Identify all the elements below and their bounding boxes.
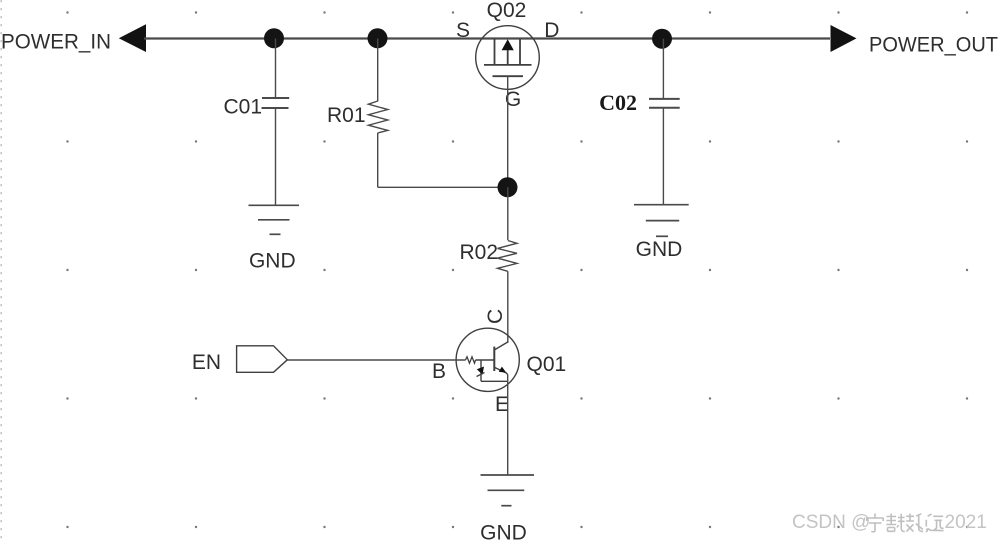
- wire R01 upper lead: [377, 39, 379, 102]
- svg-text:R01: R01: [327, 104, 366, 127]
- svg-text:E: E: [495, 393, 509, 416]
- svg-text:C01: C01: [223, 96, 262, 119]
- wire R02 lower lead to Q01 collector: [507, 271, 509, 342]
- capacitor C02: [649, 99, 680, 108]
- svg-text:B: B: [432, 360, 446, 383]
- ground GND under C02: [634, 205, 689, 261]
- port POWER_OUT: [831, 25, 999, 57]
- svg-text:C02: C02: [599, 90, 637, 115]
- junction node at C01 tap: [264, 28, 284, 48]
- junction node at C02 tap: [652, 29, 672, 49]
- wire Q02 gate lead: [507, 76, 509, 187]
- port POWER_IN: [1, 24, 146, 53]
- wire C02 lower lead: [662, 108, 664, 205]
- wire main power rail: [144, 37, 830, 39]
- svg-text:Q01: Q01: [527, 353, 567, 376]
- svg-text:S: S: [456, 19, 470, 42]
- wire C01 upper lead: [275, 39, 277, 99]
- junction node gate/R02: [498, 177, 518, 197]
- wire R02 upper lead: [507, 187, 509, 240]
- svg-text:EN: EN: [192, 351, 221, 374]
- svg-text:GND: GND: [636, 238, 683, 261]
- ground GND under Q01: [480, 475, 534, 542]
- resistor R01: [327, 101, 388, 133]
- wire R01 lower lead: [377, 133, 379, 187]
- junction node at R01 tap: [368, 28, 388, 48]
- svg-text:2021: 2021: [945, 512, 987, 533]
- resistor R02: [459, 241, 517, 272]
- wire C02 upper lead: [662, 39, 664, 99]
- wire R01 to gate node: [378, 186, 508, 188]
- port EN: [192, 346, 287, 374]
- svg-text:GND: GND: [249, 250, 296, 273]
- transistor Q01: [456, 328, 566, 391]
- transistor Q02: [476, 0, 540, 89]
- svg-text:R02: R02: [459, 241, 498, 264]
- wire Q01 emitter lead: [507, 375, 509, 476]
- capacitor C01: [262, 98, 290, 108]
- svg-text:POWER_OUT: POWER_OUT: [869, 34, 998, 57]
- svg-text:Q02: Q02: [487, 0, 527, 22]
- svg-text:C: C: [484, 309, 507, 324]
- svg-text:CSDN @: CSDN @: [792, 512, 870, 533]
- ground GND under C01: [249, 205, 300, 272]
- svg-text:GND: GND: [480, 522, 527, 542]
- svg-text:D: D: [544, 19, 559, 42]
- svg-text:POWER_IN: POWER_IN: [1, 31, 111, 54]
- wire C01 lower lead: [275, 108, 277, 205]
- wire EN to Q01 base: [287, 359, 465, 361]
